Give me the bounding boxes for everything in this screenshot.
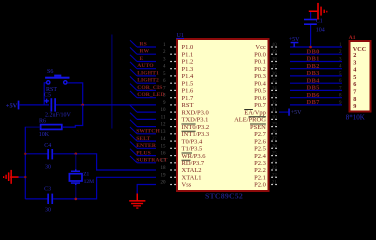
svg-text:6: 6 (353, 81, 356, 88)
wire P3.2 to bus (130, 120, 156, 127)
svg-text:39: 39 (272, 50, 278, 55)
resistor R6 (41, 125, 62, 130)
svg-text:WR/P3.6: WR/P3.6 (182, 153, 207, 160)
svg-text:DB5: DB5 (307, 85, 321, 92)
svg-text:STC89C52: STC89C52 (205, 192, 243, 201)
svg-text:P1.7: P1.7 (182, 95, 194, 102)
wire net DB5 (P0.5) (290, 89, 342, 91)
svg-text:P0.6: P0.6 (254, 95, 266, 102)
svg-text:DB1: DB1 (307, 56, 320, 63)
chip pin stubs and numbers (161, 43, 278, 186)
svg-text:RXD/P3.0: RXD/P3.0 (182, 109, 209, 116)
svg-text:C3: C3 (44, 186, 51, 192)
svg-text:31: 31 (272, 108, 278, 113)
svg-text:11: 11 (161, 115, 166, 120)
ground symbol (left, pointing left) (3, 170, 19, 184)
wire net DB7 (P0.7) (290, 104, 342, 106)
svg-text:P0.4: P0.4 (254, 80, 266, 87)
wire crystal bottom (75, 185, 77, 199)
wire R6 to ground rail (25, 126, 40, 128)
svg-text:37: 37 (272, 65, 278, 70)
svg-text:34: 34 (272, 86, 278, 91)
svg-text:12M: 12M (84, 179, 95, 185)
svg-text:P2.6: P2.6 (254, 138, 266, 145)
junction C1/Vcc (309, 46, 312, 49)
wire EA to +5V (279, 111, 288, 113)
svg-text:5: 5 (353, 74, 356, 81)
junction rail/C4 (24, 153, 26, 155)
svg-text:RS: RS (140, 41, 147, 47)
svg-text:P2.2: P2.2 (254, 167, 266, 174)
svg-text:38: 38 (272, 58, 278, 63)
svg-text:COR_LED: COR_LED (137, 92, 164, 98)
wire net DB3 (P0.3) (290, 75, 342, 77)
capacitor C5 (electrolytic) (44, 98, 56, 111)
wire net DB4 (P0.4) (290, 82, 342, 84)
svg-text:30: 30 (45, 164, 51, 170)
svg-text:40: 40 (272, 43, 278, 48)
wire net SELT (130, 134, 156, 141)
svg-text:P2.3: P2.3 (254, 160, 266, 167)
wire P3.0 to bus (130, 105, 156, 112)
pushbutton S6 (45, 75, 69, 85)
svg-text:9: 9 (353, 103, 356, 110)
svg-text:18: 18 (161, 166, 167, 171)
svg-text:26: 26 (272, 144, 278, 149)
svg-text:3: 3 (353, 59, 356, 66)
svg-text:32: 32 (272, 101, 278, 106)
svg-text:33: 33 (272, 94, 278, 99)
wire net RW (P1.1) (130, 47, 156, 54)
svg-text:DB0: DB0 (307, 48, 320, 55)
wire net SUBTRACT (130, 156, 156, 163)
power +5V (top) (289, 37, 300, 47)
wire Vss to ground (137, 185, 156, 195)
svg-text:12: 12 (161, 123, 167, 128)
crystal Y1 (69, 169, 82, 185)
svg-text:+5V: +5V (291, 110, 302, 116)
ground symbol (bottom) (129, 194, 145, 209)
svg-text:16: 16 (161, 152, 167, 157)
svg-text:DB2: DB2 (307, 63, 320, 70)
svg-text:2: 2 (353, 52, 356, 59)
junction RST node (81, 104, 84, 107)
svg-text:XTAL1: XTAL1 (182, 175, 202, 182)
svg-text:P1.4: P1.4 (182, 73, 194, 80)
junction rail/ground (24, 176, 26, 178)
svg-text:S6: S6 (47, 69, 53, 75)
svg-text:4: 4 (353, 67, 356, 74)
svg-text:E: E (140, 56, 144, 62)
svg-text:RST: RST (182, 102, 194, 109)
svg-text:8*10K: 8*10K (346, 113, 365, 121)
svg-text:C1: C1 (316, 19, 323, 25)
svg-text:P2.0: P2.0 (254, 182, 266, 189)
svg-text:20: 20 (161, 181, 167, 186)
svg-text:7: 7 (353, 89, 356, 96)
wire net ENTER (130, 142, 156, 149)
svg-text:P0.5: P0.5 (254, 88, 266, 95)
wire RST node down to R6 (63, 105, 83, 127)
A1 pins 2-9 (353, 52, 356, 110)
svg-text:LIGHT2: LIGHT2 (137, 78, 159, 84)
svg-text:TXD/P3.1: TXD/P3.1 (182, 117, 209, 124)
svg-text:P2.7: P2.7 (254, 131, 266, 138)
svg-text:2.2uF/10V: 2.2uF/10V (45, 113, 72, 119)
svg-text:8: 8 (353, 96, 356, 103)
svg-text:28: 28 (272, 130, 278, 135)
wire RST net to chip (56, 104, 156, 106)
resistor network pin numbers (339, 43, 342, 106)
svg-text:21: 21 (272, 181, 278, 186)
svg-text:SWITCH: SWITCH (136, 129, 160, 135)
svg-text:Vss: Vss (182, 182, 192, 189)
svg-text:36: 36 (272, 72, 278, 77)
svg-text:P2.1: P2.1 (254, 175, 266, 182)
svg-text:C5: C5 (44, 93, 51, 99)
svg-text:LIGHT1: LIGHT1 (137, 70, 159, 76)
svg-text:P0.0: P0.0 (254, 51, 266, 58)
wire Vcc to resistor network (290, 46, 342, 48)
svg-text:SUBTRACT: SUBTRACT (136, 158, 167, 164)
svg-text:27: 27 (272, 137, 278, 142)
ground symbol (top, pointing right) (309, 3, 328, 20)
svg-text:P1.2: P1.2 (182, 59, 194, 66)
wire net DB2 (P0.2) (290, 68, 342, 70)
wire net PLUS (130, 149, 156, 156)
chip left pin names (182, 44, 210, 189)
wire net E (P1.2) (130, 55, 156, 62)
svg-text:P0.2: P0.2 (254, 66, 266, 73)
svg-text:EA/Vpp: EA/Vpp (244, 109, 266, 116)
wire +5V to C5 and RST net (19, 104, 49, 106)
junction crystal top (75, 153, 78, 156)
wire net DB1 (P0.1) (290, 61, 342, 63)
svg-text:+5V: +5V (6, 103, 18, 110)
capacitor C3 (47, 194, 53, 204)
wire C1 to ground (310, 11, 312, 19)
bus riser (left) (111, 35, 113, 129)
svg-text:25: 25 (272, 152, 278, 157)
svg-text:22: 22 (272, 173, 278, 178)
svg-text:19: 19 (161, 173, 167, 178)
designator U1 (177, 33, 185, 39)
svg-text:23: 23 (272, 166, 278, 171)
svg-text:INT1/P3.3: INT1/P3.3 (182, 131, 210, 138)
wire +5V riser to button (44, 83, 46, 105)
junction crystal bottom (75, 198, 78, 201)
wire C3 to XTAL1 (53, 177, 156, 199)
svg-text:P1.5: P1.5 (182, 80, 194, 87)
resistor network A1 body (350, 41, 371, 112)
svg-text:P2.5: P2.5 (254, 146, 266, 153)
wire net AUTO (P1.3) (130, 62, 156, 69)
wire net RS (P1.0) (130, 40, 156, 47)
svg-text:Z1: Z1 (83, 172, 89, 178)
svg-text:R6: R6 (39, 118, 46, 124)
svg-text:C4: C4 (44, 143, 51, 149)
svg-text:T1/P3.5: T1/P3.5 (182, 146, 203, 153)
svg-text:DB7: DB7 (307, 99, 321, 106)
svg-text:ENTER: ENTER (136, 143, 157, 149)
wire ground to rail (19, 176, 26, 178)
svg-text:104: 104 (316, 28, 325, 34)
wire button to RST node (67, 83, 82, 105)
svg-text:P0.1: P0.1 (254, 59, 266, 66)
svg-text:13: 13 (161, 130, 167, 135)
svg-text:XTAL2: XTAL2 (182, 167, 202, 174)
svg-text:P1.0: P1.0 (182, 44, 194, 51)
wire crystal top (75, 154, 77, 171)
svg-text:DB3: DB3 (307, 70, 321, 77)
svg-text:35: 35 (272, 79, 278, 84)
capacitor C1 (304, 19, 317, 25)
wire C4 to XTAL2 (53, 154, 156, 170)
wire net LIGHT1 (P1.4) (130, 69, 156, 76)
svg-text:29: 29 (272, 123, 278, 128)
svg-text:24: 24 (272, 159, 278, 164)
wire net LIGHT2 (P1.5) (130, 76, 156, 83)
MCU U1 body (177, 39, 269, 191)
svg-text:P0.3: P0.3 (254, 73, 266, 80)
svg-text:PLUS: PLUS (136, 150, 151, 156)
wire rail to C3 (25, 198, 48, 200)
svg-text:AUTO: AUTO (137, 63, 154, 69)
svg-text:SELT: SELT (136, 136, 150, 142)
power +5V (EA pin) (288, 109, 302, 116)
wire net DB0 (P0.0) (290, 53, 342, 55)
svg-text:INT0/P3.2: INT0/P3.2 (182, 124, 210, 131)
svg-text:RD/P3.7: RD/P3.7 (182, 160, 205, 167)
power +5V (left) (6, 101, 20, 110)
svg-text:COR_CIS: COR_CIS (137, 85, 162, 91)
wire net SWITCH (130, 127, 156, 134)
svg-text:30: 30 (272, 115, 278, 120)
wire P3.1 to bus (130, 113, 156, 120)
svg-text:ALE/PROG: ALE/PROG (234, 117, 266, 124)
svg-text:10K: 10K (39, 132, 50, 138)
wire net COR_LED (P1.7) (130, 91, 156, 98)
svg-text:15: 15 (161, 144, 167, 149)
wire net DB6 (P0.6) (290, 97, 342, 99)
ground rail (left) (24, 127, 26, 199)
wire net COR_CIS (P1.6) (130, 84, 156, 91)
wire C1 to Vcc rail (310, 25, 312, 47)
svg-text:PSEN: PSEN (250, 124, 266, 131)
svg-text:10: 10 (161, 108, 167, 113)
capacitor C4 (47, 149, 53, 159)
svg-text:T0/P3.4: T0/P3.4 (182, 138, 204, 145)
svg-text:Vcc: Vcc (255, 44, 266, 51)
chip right pin names (234, 44, 267, 189)
svg-text:P2.4: P2.4 (254, 153, 266, 160)
svg-text:P1.3: P1.3 (182, 66, 194, 73)
svg-text:30: 30 (45, 207, 51, 213)
wire rail to C4 (25, 153, 48, 155)
svg-text:P1.1: P1.1 (182, 51, 194, 58)
svg-text:P1.6: P1.6 (182, 88, 194, 95)
svg-text:P0.7: P0.7 (254, 102, 266, 109)
svg-text:14: 14 (161, 137, 167, 142)
svg-text:DB4: DB4 (307, 77, 321, 84)
svg-text:DB6: DB6 (307, 92, 321, 99)
svg-text:RW: RW (140, 49, 150, 55)
